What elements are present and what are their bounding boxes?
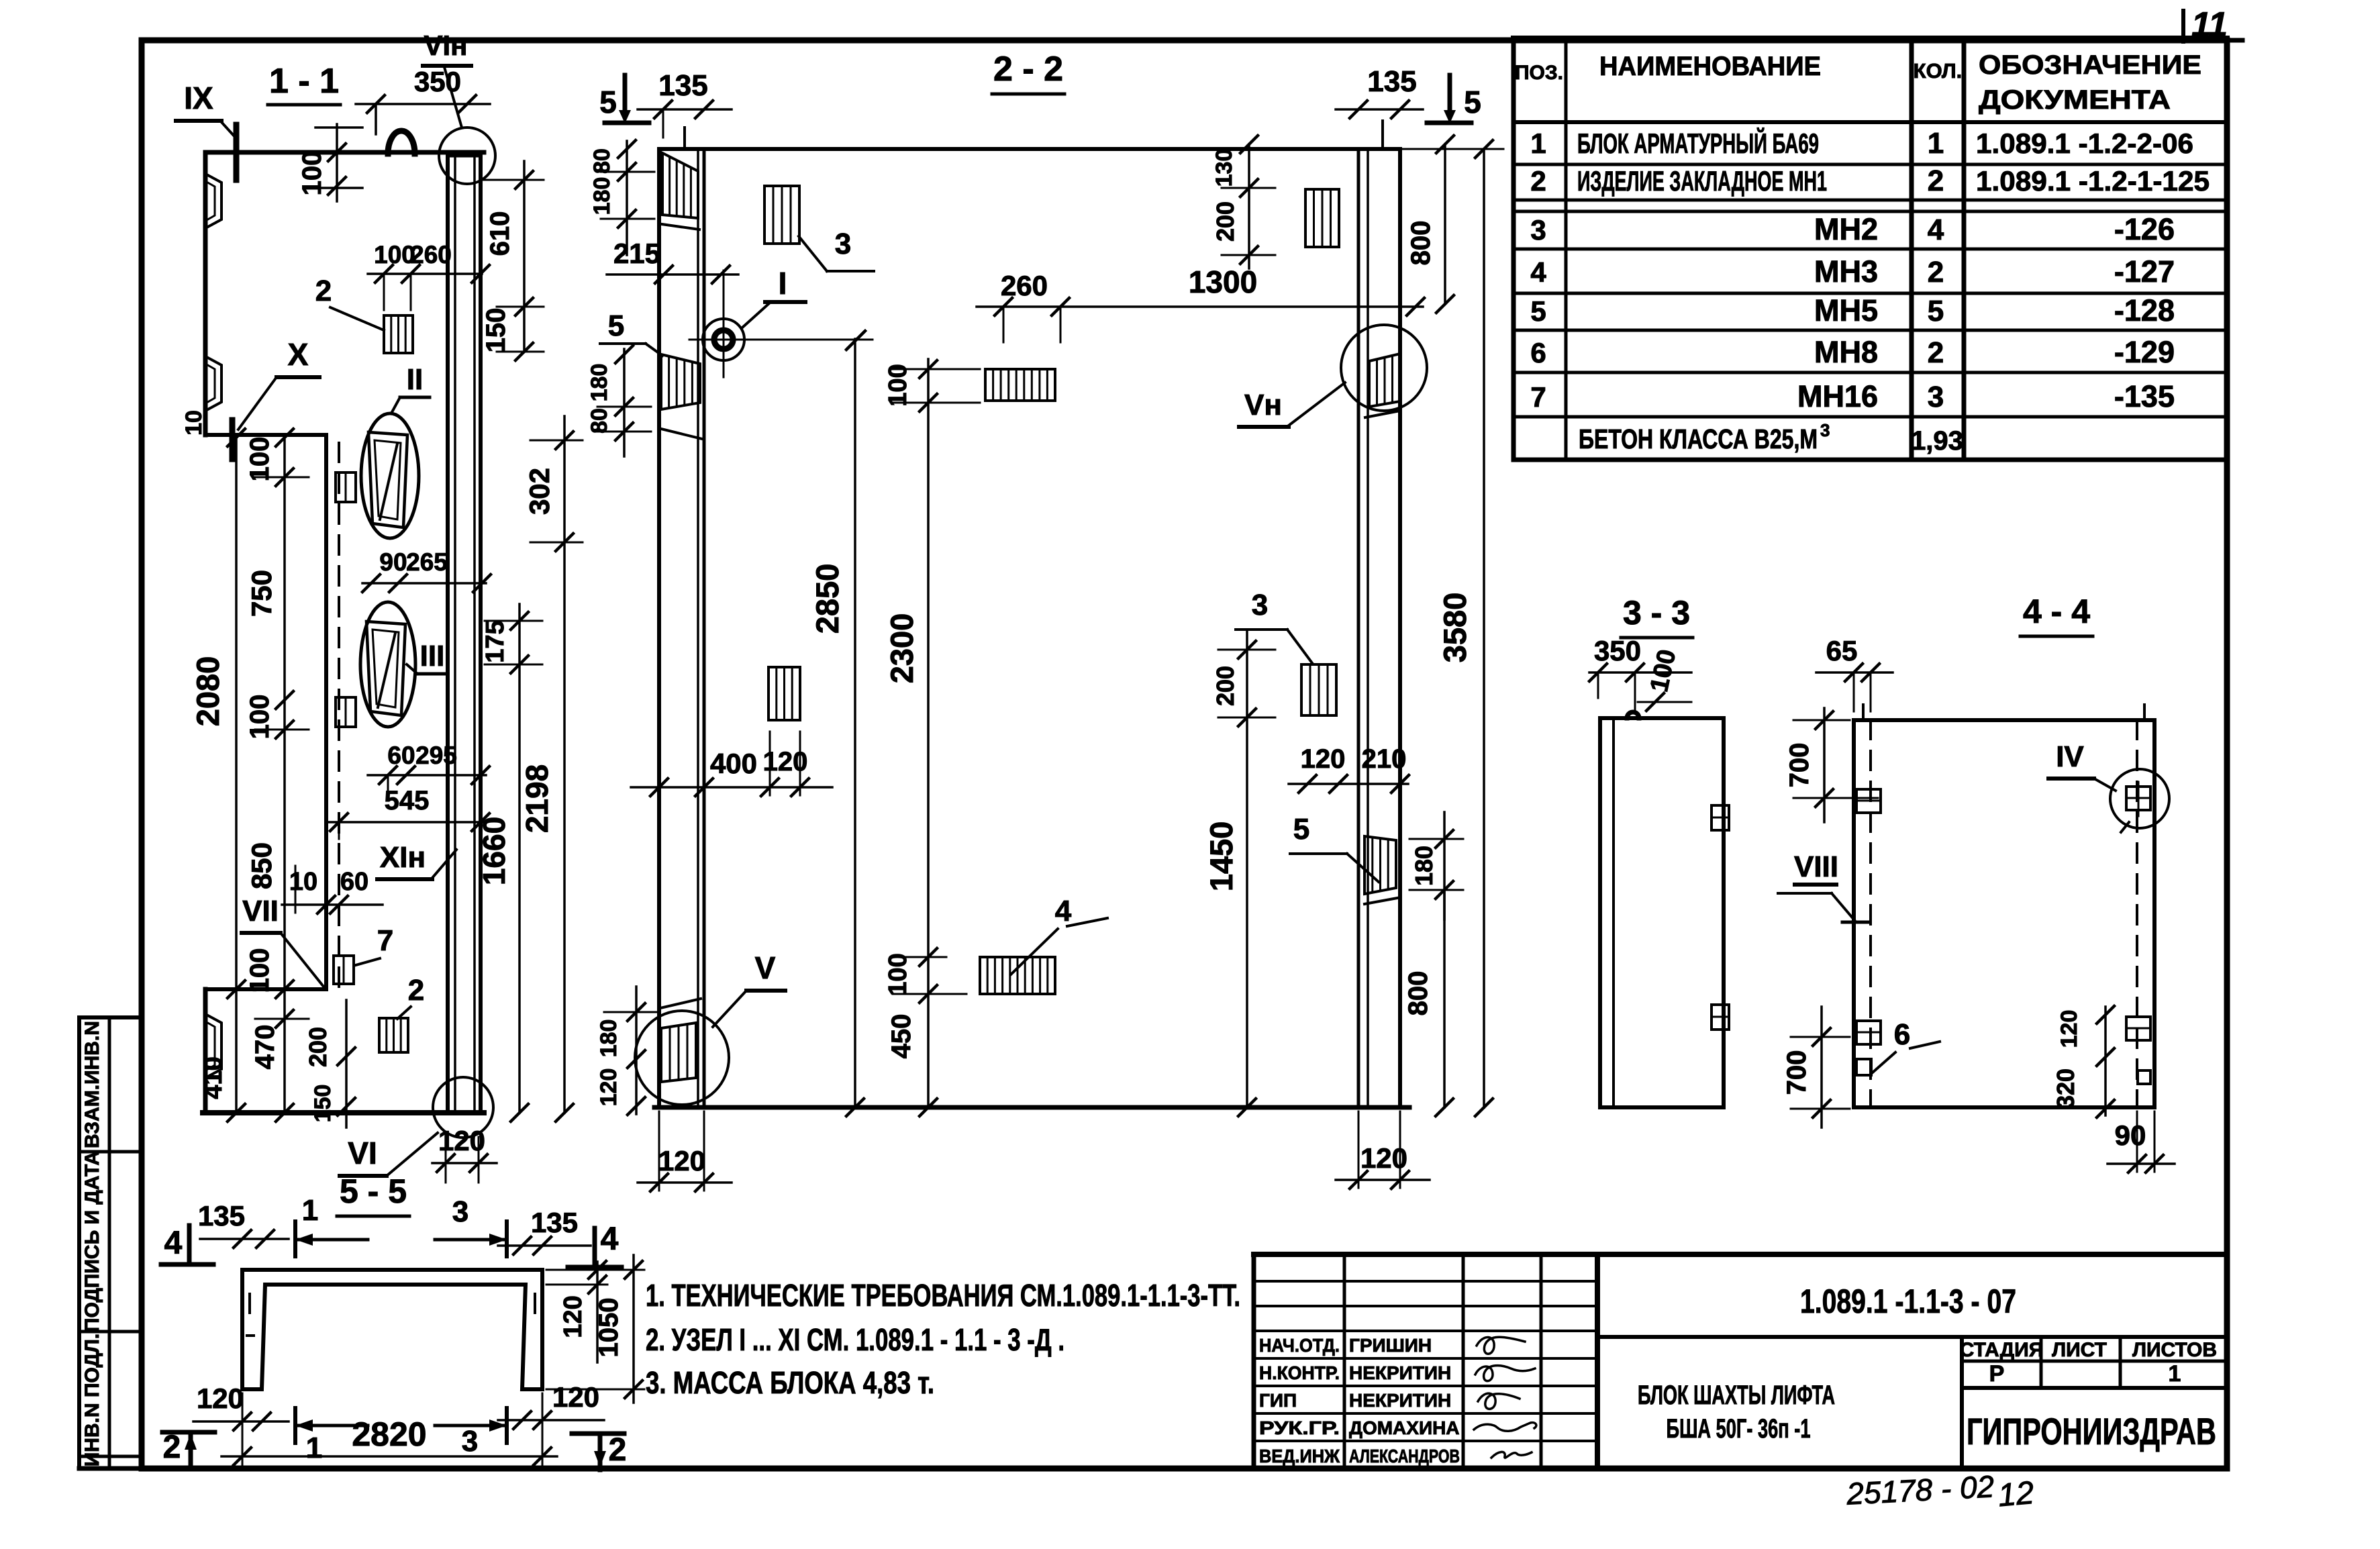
- svg-text:60: 60: [340, 868, 368, 896]
- svg-text:1300: 1300: [1189, 264, 1257, 299]
- svg-text:БЕТОН КЛАССА В25,М: БЕТОН КЛАССА В25,М: [1579, 423, 1818, 454]
- section 5-5 dim 2820: [221, 1393, 557, 1465]
- svg-text:VIII: VIII: [1794, 850, 1838, 883]
- section 1-1 dim 60 295: [368, 742, 489, 799]
- page number 11 top right: [2183, 5, 2242, 44]
- section 2-2 outline: [654, 149, 1409, 1107]
- section 1-1 dim 302: [524, 416, 583, 551]
- parts table row 7: [1530, 379, 2175, 413]
- section 4-4 dashed line right: [2136, 720, 2138, 1107]
- svg-text:4 - 4: 4 - 4: [2023, 593, 2090, 630]
- svg-text:ГИП: ГИП: [1259, 1390, 1297, 1411]
- section 1-1 embed plate 2 lower: [379, 1018, 408, 1052]
- svg-text:400: 400: [710, 748, 757, 779]
- svg-text:2: 2: [1928, 336, 1944, 369]
- svg-text:215: 215: [613, 238, 660, 269]
- svg-text:1 - 1: 1 - 1: [269, 62, 339, 101]
- svg-text:НЕКРИТИН: НЕКРИТИН: [1349, 1362, 1451, 1383]
- section 1-1 keyway top: [205, 174, 221, 228]
- svg-text:ВЕД.ИНЖ: ВЕД.ИНЖ: [1259, 1446, 1340, 1466]
- svg-text:120: 120: [1301, 744, 1346, 774]
- title block outline: [1254, 1254, 2227, 1468]
- title block row ВЕД.ИНЖ АЛЕКСАНДРОВ: [1259, 1446, 1460, 1466]
- svg-text:1.089.1 -1.1-3 - 07: 1.089.1 -1.1-3 - 07: [1800, 1283, 2016, 1320]
- section 1-1 dim 100 top: [297, 124, 362, 201]
- section 1-1 dim 175: [481, 604, 542, 673]
- parts table grid: [1514, 38, 2227, 460]
- svg-text:800: 800: [1406, 221, 1436, 266]
- svg-text:295: 295: [415, 742, 457, 769]
- svg-text:1: 1: [302, 1194, 318, 1227]
- svg-text:65: 65: [1826, 635, 1858, 666]
- svg-text:180: 180: [589, 177, 615, 215]
- parts table row concrete: [1579, 420, 1963, 456]
- section 5-5 dim 1050: [546, 1255, 644, 1403]
- section 2-2 dim 100 450 bottom: [884, 948, 966, 1058]
- svg-text:МН2: МН2: [1814, 212, 1878, 246]
- section 1-1 node marker IX: [176, 81, 236, 180]
- section 1-1 title: [268, 62, 340, 105]
- section 2-2 dim 100 middle: [884, 360, 980, 411]
- section 1-1 dim 10 step: [181, 410, 207, 436]
- svg-text:130: 130: [1211, 149, 1237, 187]
- title block row РУК.ГР. ДОМАХИНА: [1259, 1417, 1460, 1438]
- svg-text:25178 - 02: 25178 - 02: [1845, 1468, 1995, 1511]
- section 2-2 title: [992, 50, 1064, 94]
- section 1-1 label 7: [356, 924, 393, 965]
- svg-text:450: 450: [887, 1014, 916, 1059]
- section 1-1 dim 100 260: [368, 241, 489, 310]
- section 1-1 opening III oval: [360, 602, 415, 727]
- section 2-2 left rail pocket bottom: [660, 999, 701, 1082]
- section 1-1 embed on dashed line upper: [336, 472, 356, 502]
- svg-text:750: 750: [246, 570, 277, 617]
- section 1-1 dim 1660: [477, 664, 528, 1121]
- svg-text:5 - 5: 5 - 5: [340, 1172, 407, 1210]
- svg-text:Vн: Vн: [1244, 389, 1282, 421]
- section 2-2 dim 1450: [1203, 717, 1256, 1116]
- svg-text:БЛОК АРМАТУРНЫЙ БА69: БЛОК АРМАТУРНЫЙ БА69: [1577, 127, 1819, 159]
- svg-text:1660: 1660: [477, 817, 511, 885]
- svg-text:150: 150: [310, 1085, 336, 1123]
- title block stage header СТАДИЯ ЛИСТ ЛИСТОВ: [1960, 1339, 2217, 1361]
- section 3-3 title: [1621, 594, 1693, 638]
- section 5-5 cut mark 2 bottom left: [162, 1430, 215, 1468]
- svg-text:3: 3: [452, 1195, 468, 1228]
- svg-text:БША 50Г- 36п -1: БША 50Г- 36п -1: [1667, 1414, 1811, 1444]
- section 2-2 label I: [742, 266, 805, 328]
- section 2-2 left rail pocket top: [662, 153, 699, 230]
- svg-text:80: 80: [589, 148, 615, 174]
- section 2-2 left chain bottom 120 180: [596, 987, 658, 1115]
- svg-text:МН16: МН16: [1797, 379, 1878, 413]
- svg-text:800: 800: [1403, 971, 1433, 1016]
- svg-text:5: 5: [1928, 295, 1944, 328]
- section 1-1 keyway middle: [205, 356, 221, 411]
- svg-text:-129: -129: [2114, 335, 2175, 369]
- section 4-4 dim 90: [2108, 1111, 2175, 1172]
- section 1-1 dim 545: [329, 786, 489, 839]
- section 1-1 dim 90 265: [362, 548, 491, 592]
- svg-text:5: 5: [1530, 295, 1546, 327]
- section 3-3 outline: [1600, 718, 1724, 1107]
- section 1-1 embed on dashed line middle: [336, 697, 356, 727]
- section 5-5 dim 120 right side rotated: [546, 1261, 607, 1362]
- svg-text:АЛЕКСАНДРОВ: АЛЕКСАНДРОВ: [1349, 1446, 1460, 1466]
- svg-text:РУК.ГР.: РУК.ГР.: [1259, 1417, 1340, 1438]
- svg-text:3: 3: [1252, 589, 1268, 621]
- section 2-2 dim 135 right: [1336, 65, 1423, 149]
- svg-text:210: 210: [1362, 744, 1407, 774]
- section 5-5 cut mark 4 top right: [568, 1221, 622, 1267]
- svg-text:135: 135: [658, 69, 707, 102]
- svg-text:200: 200: [1211, 666, 1239, 706]
- svg-text:5: 5: [608, 309, 624, 342]
- section 2-2 left chain 80 180 top: [589, 140, 654, 255]
- section 2-2 dim 2300: [884, 359, 937, 1116]
- section 2-2 left rail pocket middle: [661, 354, 702, 439]
- section 2-2 embed top middle: [985, 369, 1055, 401]
- section 5-5 dim 135 top left: [198, 1200, 289, 1248]
- svg-text:4: 4: [164, 1226, 183, 1261]
- left stamp strip: [79, 1017, 142, 1468]
- section 5-5 cut mark 1 top: [295, 1194, 368, 1256]
- svg-text:VIн: VIн: [424, 30, 467, 61]
- section 1-1 label 2 upper: [315, 274, 384, 330]
- section 1-1 label II: [392, 363, 430, 412]
- svg-text:100: 100: [245, 695, 275, 740]
- section 1-1 panel outline: [203, 152, 484, 1113]
- svg-text:135: 135: [531, 1207, 578, 1238]
- section 5-5 channel outline: [242, 1270, 542, 1389]
- svg-text:610: 610: [485, 211, 515, 256]
- svg-text:7: 7: [1530, 381, 1546, 413]
- section 2-2 dim 400 120: [631, 732, 832, 796]
- section 1-1 dim 2198: [519, 542, 573, 1121]
- svg-text:135: 135: [1367, 65, 1416, 98]
- svg-text:-126: -126: [2114, 212, 2175, 246]
- svg-text:100: 100: [884, 364, 912, 406]
- parts table row 4: [1530, 254, 2175, 289]
- svg-text:2 - 2: 2 - 2: [993, 50, 1063, 89]
- svg-text:4: 4: [1530, 256, 1546, 288]
- section 2-2 label 3 mid right: [1236, 589, 1312, 663]
- section 1-1 dim 10 60 lower: [282, 866, 383, 913]
- svg-text:100: 100: [374, 241, 415, 268]
- section 2-2 node marker V: [635, 950, 785, 1105]
- section 1-1 node marker X: [232, 337, 319, 459]
- section 1-1 label VIn: [423, 30, 471, 128]
- svg-text:IX: IX: [184, 81, 213, 115]
- svg-text:120: 120: [197, 1383, 244, 1414]
- section 2-2 embed 3 top right: [1305, 189, 1339, 247]
- svg-text:МН3: МН3: [1814, 254, 1878, 289]
- section 1-1 dim 120 bottom: [432, 1125, 497, 1183]
- svg-text:5: 5: [1293, 813, 1309, 846]
- svg-text:320: 320: [2052, 1068, 2079, 1109]
- svg-text:10: 10: [289, 868, 317, 896]
- section 2-2 embed mid left: [768, 667, 800, 720]
- svg-text:545: 545: [385, 786, 430, 815]
- section 2-2 dim 800 lower right: [1403, 890, 1453, 1116]
- section 1-1 dim 2080: [190, 429, 245, 998]
- svg-text:X: X: [288, 337, 309, 372]
- svg-text:ГИПРОНИИЗДРАВ: ГИПРОНИИЗДРАВ: [1967, 1410, 2216, 1452]
- svg-text:НАИМЕНОВАНИЕ: НАИМЕНОВАНИЕ: [1599, 52, 1821, 81]
- section 2-2 dim 200 mid right: [1211, 631, 1275, 726]
- svg-text:2: 2: [408, 974, 424, 1007]
- section 2-2 left chain 80 180 bottom: [587, 346, 651, 456]
- section 3-3 clip lower: [1712, 1005, 1729, 1030]
- section 4-4 clip right upper: [2126, 782, 2150, 816]
- svg-text:ГРИШИН: ГРИШИН: [1349, 1335, 1432, 1356]
- section 2-2 dim 260 1300: [977, 264, 1424, 342]
- section 5-5 leg marks: [247, 1294, 535, 1336]
- svg-text:II: II: [407, 363, 423, 396]
- svg-text:-128: -128: [2114, 293, 2175, 328]
- section 4-4 label 6: [1873, 1018, 1940, 1072]
- section 1-1 label 2 lower: [397, 974, 424, 1019]
- section 2-2 embed 4 bottom middle: [980, 957, 1055, 994]
- svg-text:120: 120: [658, 1145, 705, 1177]
- section 1-1 dim 410: [199, 989, 245, 1121]
- section 1-1 lifting loop: [388, 131, 415, 154]
- svg-text:ДОКУМЕНТА: ДОКУМЕНТА: [1979, 85, 2171, 115]
- svg-text:2. УЗЕЛ I ... XI СМ. 1.089.1: 2. УЗЕЛ I ... XI СМ. 1.089.1 - 1.1 - 3 -…: [646, 1322, 1064, 1357]
- title block row ГИП НЕКРИТИН: [1259, 1390, 1451, 1411]
- section 3-3 clip upper: [1712, 805, 1729, 830]
- svg-text:1: 1: [1928, 127, 1944, 160]
- svg-text:СТАДИЯ: СТАДИЯ: [1960, 1339, 2044, 1361]
- svg-text:2: 2: [1530, 165, 1546, 197]
- svg-text:III: III: [420, 640, 445, 672]
- section 2-2 left rail inner lines: [698, 149, 704, 1107]
- svg-text:200: 200: [304, 1027, 332, 1067]
- section 5-5 cut mark 4 top left: [161, 1226, 213, 1264]
- section 1-1 hidden face dashed: [338, 443, 340, 987]
- svg-text:2: 2: [609, 1432, 627, 1468]
- svg-text:850: 850: [246, 842, 277, 889]
- section 5-5 dim 120 right: [498, 1381, 604, 1429]
- parts table row 6: [1530, 335, 2175, 369]
- section 2-2 dim 120 210 lower right: [1289, 744, 1409, 793]
- svg-text:ПОЗ.: ПОЗ.: [1515, 62, 1563, 84]
- svg-text:100: 100: [245, 437, 275, 482]
- title block row НАЧ.ОТД. ГРИШИН: [1259, 1335, 1432, 1356]
- svg-text:2: 2: [1928, 164, 1944, 197]
- svg-text:120: 120: [596, 1068, 622, 1107]
- section 3-3 lifting hook: [1627, 712, 1639, 718]
- section 1-1 node marker VII: [242, 895, 324, 987]
- section 4-4 clip right lower: [2126, 1017, 2150, 1040]
- section 4-4 label VIII: [1778, 850, 1869, 922]
- parts table header: [1515, 50, 2201, 115]
- svg-text:2820: 2820: [352, 1415, 426, 1453]
- section 4-4 dashed line left: [1869, 720, 1872, 1107]
- section 5-5 dim 120 left: [193, 1383, 289, 1430]
- svg-text:БЛОК ШАХТЫ ЛИФТА: БЛОК ШАХТЫ ЛИФТА: [1638, 1381, 1835, 1410]
- section 1-1 label III: [407, 640, 447, 674]
- svg-text:3: 3: [1530, 214, 1546, 246]
- svg-text:60: 60: [387, 742, 415, 769]
- section 2-2 dim 135 left: [638, 69, 732, 149]
- svg-text:100: 100: [1645, 647, 1681, 695]
- section 2-2 dim 3580: [1403, 140, 1503, 1116]
- section 1-1 node marker VIn circle: [439, 128, 495, 184]
- section 2-2 dim 120 bottom right: [1336, 1111, 1430, 1189]
- svg-text:VI: VI: [348, 1136, 377, 1170]
- section 4-4 clip left bottom small: [1856, 1059, 1871, 1075]
- svg-text:3: 3: [462, 1425, 478, 1458]
- svg-text:470: 470: [250, 1025, 280, 1070]
- section 1-1 dim 150: [481, 308, 544, 360]
- section 2-2 dim 130 200 right: [1211, 136, 1275, 268]
- svg-text:265: 265: [406, 548, 448, 576]
- svg-text:1,93: 1,93: [1911, 426, 1963, 456]
- section 4-4 clip right bottom small: [2138, 1070, 2150, 1084]
- svg-text:ВЗАМ.ИНВ.N: ВЗАМ.ИНВ.N: [81, 1021, 103, 1148]
- svg-text:ПОДПИСЬ И ДАТА: ПОДПИСЬ И ДАТА: [81, 1151, 103, 1332]
- parts table row 2: [1530, 164, 2210, 197]
- svg-text:3: 3: [1820, 420, 1830, 440]
- svg-text:4: 4: [601, 1221, 619, 1257]
- svg-text:3580: 3580: [1437, 593, 1473, 663]
- svg-text:2: 2: [163, 1430, 181, 1465]
- svg-text:Р: Р: [1989, 1361, 2005, 1387]
- section 5-5 cut mark 2 bottom right: [572, 1432, 626, 1470]
- svg-text:НАЧ.ОТД.: НАЧ.ОТД.: [1259, 1335, 1340, 1356]
- svg-text:1.089.1 -1.2-2-06: 1.089.1 -1.2-2-06: [1976, 128, 2193, 159]
- section 5-5 cut mark 3 bottom: [435, 1408, 507, 1458]
- svg-text:-127: -127: [2114, 254, 2175, 289]
- svg-text:ДОМАХИНА: ДОМАХИНА: [1349, 1417, 1460, 1438]
- svg-text:410: 410: [199, 1056, 228, 1099]
- svg-text:ОБОЗНАЧЕНИЕ: ОБОЗНАЧЕНИЕ: [1979, 50, 2201, 80]
- section 2-2 label 4: [1011, 895, 1107, 975]
- svg-text:1: 1: [2169, 1361, 2181, 1387]
- section 1-1 dim 350: [356, 66, 490, 134]
- section 2-2 node marker Vn: [1239, 325, 1427, 427]
- svg-text:3: 3: [835, 228, 851, 260]
- svg-text:10: 10: [181, 410, 207, 436]
- parts table row 3: [1530, 212, 2175, 246]
- section 4-4 top corner ticks: [1863, 705, 2144, 720]
- section 5-5 cut mark 1 bottom: [295, 1408, 368, 1464]
- section 1-1 rail channel: [448, 154, 481, 1111]
- svg-text:5: 5: [599, 85, 617, 119]
- svg-text:IV: IV: [2056, 740, 2084, 773]
- section 2-2 detail I marker: [689, 270, 873, 377]
- svg-text:700: 700: [1785, 743, 1814, 788]
- section 2-2 embed 3 top left: [764, 186, 799, 244]
- svg-text:2300: 2300: [884, 613, 920, 684]
- svg-text:180: 180: [1410, 846, 1438, 886]
- svg-text:1: 1: [1530, 128, 1546, 159]
- svg-text:3: 3: [1928, 381, 1944, 413]
- section 4-4 clip left upper: [1856, 789, 1881, 813]
- section 1-1 label VI: [340, 1133, 438, 1176]
- section 1-1 keyway bottom: [205, 1014, 221, 1078]
- svg-text:120: 120: [559, 1295, 587, 1338]
- svg-text:90: 90: [379, 548, 407, 576]
- svg-text:I: I: [779, 266, 787, 301]
- svg-text:12: 12: [1997, 1475, 2036, 1513]
- parts table row 5: [1530, 293, 2175, 328]
- section 1-1 left dim chain: [245, 429, 309, 1121]
- svg-text:350: 350: [414, 66, 461, 97]
- svg-text:135: 135: [198, 1200, 245, 1232]
- section 2-2 dim 2850: [809, 332, 864, 1116]
- svg-text:1: 1: [306, 1432, 322, 1464]
- svg-text:МН8: МН8: [1814, 335, 1878, 369]
- section 2-2 right rail: [1358, 149, 1400, 1107]
- section 2-2 dim 800 upper right: [1406, 136, 1454, 313]
- svg-text:ИНВ.N ПОДЛ.: ИНВ.N ПОДЛ.: [81, 1334, 103, 1467]
- section 5-5 dim 135 top right: [498, 1207, 591, 1254]
- section 2-2 label 3 top left: [799, 228, 874, 271]
- section 1-1 dim 200 150 lower: [304, 1000, 355, 1128]
- section 2-2 cut mark 5 top right: [1427, 75, 1481, 123]
- svg-text:260: 260: [410, 241, 452, 268]
- svg-text:4: 4: [1055, 895, 1072, 928]
- svg-text:302: 302: [524, 468, 555, 515]
- svg-text:180: 180: [596, 1019, 622, 1058]
- title block row Н.КОНТР. НЕКРИТИН: [1259, 1362, 1451, 1383]
- section 4-4 dim 700 upper: [1785, 708, 1878, 822]
- section 3-3 dim 100: [1638, 647, 1691, 711]
- parts table row 1: [1530, 127, 2193, 160]
- section 4-4 dim 700 lower: [1782, 1007, 1850, 1128]
- svg-text:-135: -135: [2114, 379, 2175, 413]
- title block signatures: [1474, 1337, 1536, 1458]
- section 2-2 right rail pocket bottom: [1365, 836, 1397, 904]
- section 1-1 node marker XIn: [377, 841, 456, 879]
- section 1-1 dim 610: [483, 161, 544, 352]
- svg-text:150: 150: [481, 308, 511, 353]
- svg-text:2850: 2850: [809, 564, 845, 634]
- svg-text:200: 200: [1211, 201, 1239, 242]
- svg-text:120: 120: [2056, 1010, 2082, 1048]
- svg-text:НЕКРИТИН: НЕКРИТИН: [1349, 1390, 1451, 1411]
- svg-text:V: V: [755, 950, 776, 985]
- svg-text:1450: 1450: [1203, 821, 1239, 892]
- svg-text:100: 100: [884, 953, 912, 995]
- svg-text:3 - 3: 3 - 3: [1623, 594, 1690, 632]
- svg-text:ЛИСТОВ: ЛИСТОВ: [2132, 1339, 2217, 1361]
- svg-text:МН5: МН5: [1814, 293, 1878, 328]
- section 2-2 label 5 left pocket: [600, 309, 662, 356]
- section 3-3 dim 350: [1589, 635, 1691, 711]
- section 2-2 label 5 lower right: [1290, 813, 1379, 882]
- section 5-5 cut mark 3 top: [435, 1195, 507, 1256]
- section 1-1 opening II oval: [361, 413, 419, 538]
- svg-text:Н.КОНТР.: Н.КОНТР.: [1259, 1362, 1340, 1383]
- svg-text:2080: 2080: [190, 656, 226, 727]
- section 4-4 title: [2020, 593, 2093, 636]
- section 5-5 title: [337, 1172, 409, 1216]
- svg-text:КОЛ.: КОЛ.: [1914, 59, 1963, 83]
- svg-text:2198: 2198: [519, 764, 554, 833]
- svg-text:260: 260: [1001, 270, 1048, 301]
- section 4-4 dim 320 120: [2052, 1006, 2114, 1117]
- svg-text:2: 2: [315, 274, 332, 307]
- svg-text:120: 120: [552, 1381, 599, 1413]
- svg-text:1.089.1 -1.2-1-125: 1.089.1 -1.2-1-125: [1976, 165, 2210, 197]
- section 4-4 outline: [1854, 720, 2154, 1107]
- svg-text:3. МАССА БЛОКА 4,83 т.: 3. МАССА БЛОКА 4,83 т.: [646, 1365, 934, 1400]
- svg-text:1050: 1050: [594, 1298, 624, 1358]
- svg-text:350: 350: [1594, 635, 1641, 666]
